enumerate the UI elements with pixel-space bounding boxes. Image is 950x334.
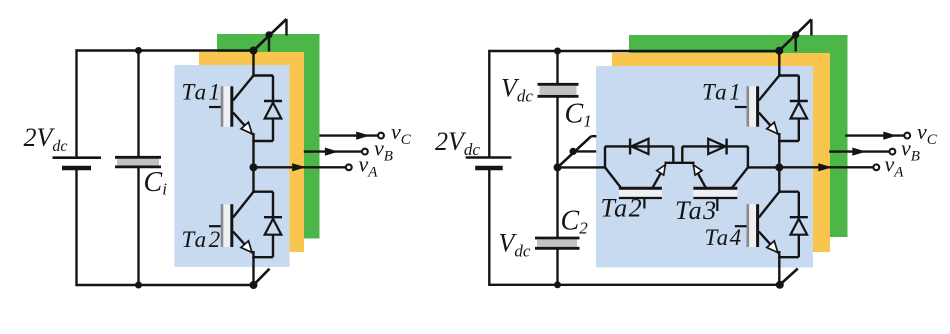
node Ci top junction: [135, 47, 142, 54]
battery 2Vdc positive plate (right): [466, 156, 512, 159]
svg-text:C1: C1: [565, 99, 592, 131]
arrow output vA (left): [254, 163, 346, 171]
wire layer link diagonal bottom (right): [780, 269, 798, 285]
wire layer link diagonal top (left): [254, 19, 287, 51]
transistor Ta2 (right, horizontal IGBT): [605, 165, 666, 209]
label vB (right): [901, 136, 920, 165]
wire Ci branch upper: [137, 51, 139, 158]
transistor Ta1 (right IGBT): [735, 76, 780, 135]
label Ta2 (left): [182, 227, 223, 252]
wire C2 to DC- bus (right): [556, 248, 558, 284]
battery 2Vdc positive plate (left): [53, 156, 102, 159]
diode D1 antiparallel with Ta1 (left): [252, 76, 282, 142]
label C1: [565, 99, 592, 131]
wire capacitor branch upper (right): [556, 51, 558, 84]
diode D6 clamp (points right): [708, 139, 726, 155]
label vC (right): [917, 119, 938, 148]
wire Ta1 emitter to phase node (right): [778, 133, 780, 167]
terminal vC (right): [904, 133, 910, 139]
svg-text:Ta2: Ta2: [601, 193, 644, 222]
label 2Vdc (left): [24, 123, 68, 155]
diode D2 antiparallel with Ta2 (left): [252, 192, 282, 258]
arrow output vC (right): [845, 132, 904, 140]
label Ta1 (right): [702, 80, 743, 105]
node neutral point junction (right): [554, 163, 562, 171]
wire Ta2 emitter to DC- bus (left): [252, 251, 254, 285]
wire Ta1 emitter to phase node (left): [252, 133, 254, 167]
wire clamp to phase node (right): [748, 166, 779, 168]
label Ta1 (left): [182, 80, 223, 105]
transistor Ta4 (right IGBT): [735, 192, 780, 253]
phase C layer (green, left inverter): [217, 34, 320, 239]
wire clamp riser 2 (right): [681, 146, 683, 162]
capacitor C1: [538, 84, 579, 96]
svg-text:Ta3: Ta3: [675, 196, 718, 225]
label vB (left): [374, 136, 393, 165]
wire phase node to Ta2 (left): [252, 167, 254, 193]
svg-text:2Vdc: 2Vdc: [435, 127, 480, 159]
label Ta4 (right): [705, 225, 743, 250]
label Vdc upper (right): [501, 74, 533, 106]
wire common emitter bus (right): [665, 162, 695, 164]
wire Ci branch lower: [137, 167, 139, 285]
phase C layer (green, right inverter): [629, 35, 848, 237]
arrow output vC (left): [320, 132, 378, 140]
wire Ta1 collector feed (left): [252, 51, 254, 77]
node DC- junction phase A leg (left): [250, 281, 258, 289]
wire phase B leg stub (right top): [795, 35, 797, 52]
label vA (left): [359, 152, 379, 181]
label vC (left): [391, 119, 412, 148]
capacitor C2: [535, 238, 580, 248]
arrow output vB (left): [304, 148, 362, 156]
terminal vC (left): [378, 133, 384, 139]
wire top DC+ bus (left): [77, 49, 254, 51]
svg-text:Vdc: Vdc: [499, 229, 531, 261]
svg-text:Ta4: Ta4: [705, 225, 743, 250]
label 2Vdc (right): [435, 127, 480, 159]
transistor Ta1 (left IGBT): [209, 76, 254, 135]
wire C1 to neutral node (right): [556, 96, 558, 238]
wire phase C neutral stub (right): [591, 135, 596, 137]
svg-text:Ta1: Ta1: [702, 80, 743, 105]
svg-text:2Vdc: 2Vdc: [24, 123, 68, 155]
wire neutral to bidirectional switch (right): [558, 166, 607, 168]
terminal vB (left): [362, 149, 368, 155]
battery 2Vdc negative plate (left): [62, 166, 91, 171]
phase A layer (blue, right inverter): [596, 66, 813, 268]
transistor Ta2 (left IGBT): [209, 192, 254, 253]
wire Ta1 collector feed (right): [778, 51, 780, 77]
wire top DC+ bus (right): [489, 50, 779, 52]
wire Ta4 emitter to DC- bus (right): [778, 251, 780, 285]
diode D3 antiparallel with Ta1 (right): [778, 76, 808, 142]
label Ta2 (right): [601, 193, 644, 222]
wire phase node to Ta4 (right): [778, 167, 780, 193]
wire phase C leg stub (left top): [285, 19, 287, 36]
node capacitor branch bottom junction (right): [554, 281, 561, 288]
node DC- junction phase A leg (right): [776, 281, 784, 289]
node layer link phase B (right top): [792, 31, 799, 38]
wire phase B leg stub (left top): [268, 35, 270, 52]
wire clamp left riser (right): [604, 146, 606, 168]
wire phase B neutral stub (right): [573, 150, 596, 152]
node Ci bottom junction: [135, 282, 142, 289]
arrow output vB (right): [829, 148, 889, 156]
wire left rail upper (left): [75, 49, 77, 157]
terminal vA (right): [873, 164, 879, 170]
arrow output vA (right): [779, 163, 873, 171]
svg-text:vC: vC: [391, 119, 412, 148]
svg-text:Ta2: Ta2: [182, 227, 223, 252]
node layer link phase B (left top): [265, 31, 272, 38]
transistor Ta3 (right, horizontal IGBT): [693, 165, 748, 211]
node phase A output (left): [250, 163, 258, 171]
wire left rail lower (left): [75, 168, 77, 286]
label vA (right): [885, 152, 905, 181]
label Ta3 (right): [675, 196, 718, 225]
wire layer link diagonal neutral (right): [558, 136, 592, 167]
wire left rail lower (right): [488, 168, 490, 286]
wire layer link diagonal bottom (left): [254, 269, 270, 285]
phase B layer (yellow, left inverter): [199, 52, 304, 252]
wire bottom DC- bus (right): [489, 284, 780, 286]
label Ci: [144, 167, 168, 199]
svg-text:Ci: Ci: [144, 167, 168, 199]
node DC+ junction phase A leg (left): [250, 47, 258, 55]
wire clamp top rail 1 (right): [605, 145, 673, 147]
svg-text:Ta1: Ta1: [182, 80, 223, 105]
wire clamp drop 1 (right): [672, 146, 674, 162]
svg-text:Vdc: Vdc: [501, 74, 533, 106]
node layer link phase B neutral (right): [570, 148, 577, 155]
wire clamp top rail 2 (right): [682, 145, 748, 147]
label C2: [561, 206, 589, 238]
node capacitor branch top junction (right): [554, 48, 561, 55]
node phase A output (right): [775, 163, 783, 171]
diode D4 antiparallel with Ta4 (right): [778, 192, 808, 258]
capacitor Ci: [115, 157, 161, 167]
svg-text:vC: vC: [917, 119, 938, 148]
phase A layer (blue, left inverter): [175, 65, 290, 267]
wire clamp drop to phase (right): [747, 146, 749, 168]
svg-text:C2: C2: [561, 206, 589, 238]
battery 2Vdc negative plate (right): [475, 166, 503, 171]
node DC+ junction phase A leg (right): [775, 47, 783, 55]
diode D5 clamp (points left): [630, 139, 648, 155]
wire bottom DC- bus (left): [77, 284, 254, 286]
label Vdc lower (right): [499, 229, 531, 261]
wire left rail upper (right): [488, 50, 490, 158]
terminal vA (left): [346, 164, 352, 170]
wire phase C leg stub (right top): [810, 19, 812, 35]
wire layer link diagonal top (right): [779, 19, 811, 50]
phase B layer (yellow, right inverter): [612, 53, 830, 252]
terminal vB (right): [890, 149, 896, 155]
